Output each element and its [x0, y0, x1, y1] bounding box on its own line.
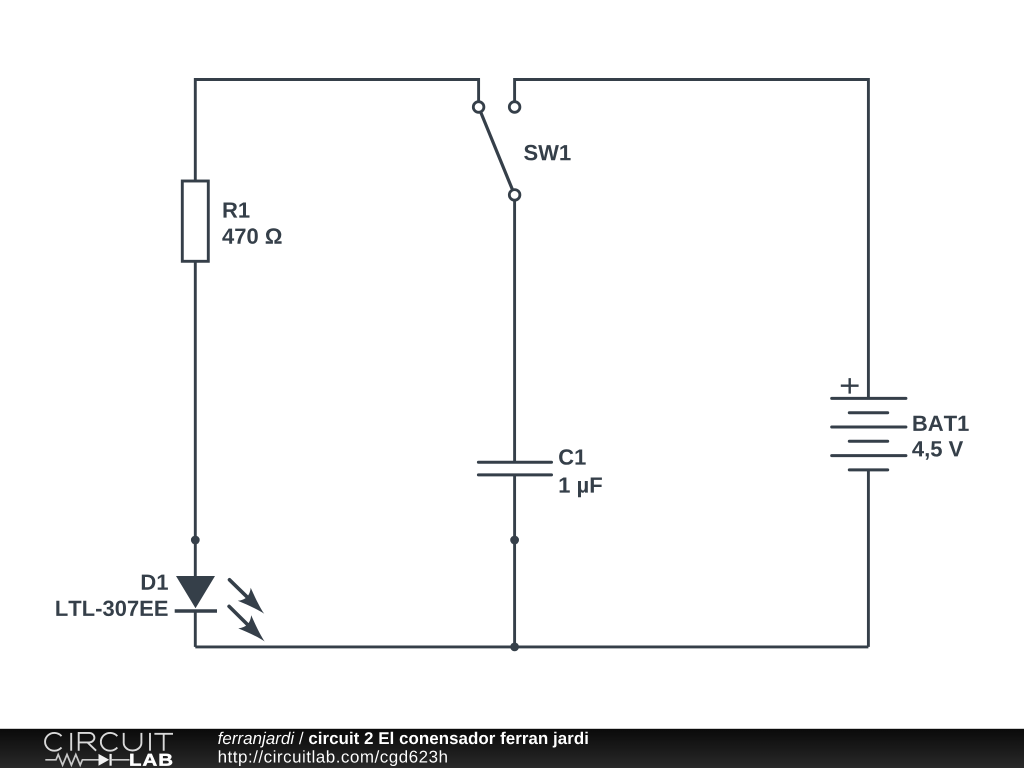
capacitor C1 value label: [560, 478, 602, 498]
wire: left branch top (resistor top to top-left corner to switch left terminal): [195, 80, 478, 182]
wire: capacitor bottom plate down to bottom rail: [513, 475, 516, 647]
wire: switch bottom terminal down to capacitor top plate: [513, 195, 516, 462]
CircuitLab logo LAB text: [130, 754, 172, 766]
node: junction dot on LED branch: [191, 536, 200, 545]
battery BAT1 plate 6 short (negative): [849, 468, 887, 471]
wire: bottom rail: [195, 645, 868, 648]
battery BAT1 value label: [912, 441, 963, 460]
LED D1 label: [142, 575, 168, 590]
LED D1 light arrow 1 head: [238, 588, 264, 614]
wire: LED cathode down to bottom rail: [194, 611, 197, 647]
battery BAT1 plate 4 short: [849, 440, 887, 443]
capacitor C1 label: [559, 449, 586, 465]
CircuitLab logo diode bar: [109, 754, 111, 766]
switch SW1 left terminal circle: [473, 102, 484, 113]
CircuitLab logo letter R: [79, 733, 96, 751]
wire: switch right terminal up and top-right corner down to battery top: [515, 80, 869, 399]
CircuitLab logo letter C: [45, 733, 61, 751]
node: junction dot on capacitor branch: [510, 536, 519, 545]
resistor R1 label: [224, 203, 250, 218]
LED D1 triangle (anode): [176, 576, 215, 608]
battery BAT1 plus sign: [841, 378, 859, 394]
switch SW1 label: [524, 145, 571, 161]
CircuitLab logo diode triangle: [99, 754, 110, 766]
capacitor C1 top plate: [478, 461, 551, 464]
CircuitLab logo resistor zigzag wire: [45, 755, 98, 766]
battery BAT1 label: [913, 416, 968, 431]
LED D1 light arrow 2 shaft: [229, 606, 250, 627]
CircuitLab logo letter I: [70, 733, 72, 751]
battery BAT1 plate 2 short: [849, 411, 887, 414]
switch SW1 lever: [479, 107, 515, 195]
LED D1 light arrow 2 head: [238, 615, 264, 641]
battery BAT1 plate 5 long: [832, 454, 906, 457]
LED D1 part number label: [56, 601, 167, 617]
footer black bar: [0, 729, 1024, 768]
battery BAT1 plate 1 long (positive): [832, 397, 906, 400]
switch SW1 pole terminal circle: [509, 190, 520, 201]
wire: battery bottom terminal down to bottom rail: [867, 470, 870, 647]
CircuitLab logo letter U: [124, 733, 142, 751]
resistor R1 value label: [222, 228, 281, 244]
battery BAT1 plate 3 long: [832, 426, 906, 429]
LED D1 light arrow 1 shaft: [230, 580, 251, 600]
CircuitLab logo letter I 2: [149, 733, 151, 751]
footer url text: [219, 750, 447, 766]
wire: resistor bottom down to LED anode: [194, 261, 197, 577]
CircuitLab logo letter T: [154, 734, 173, 751]
capacitor C1 bottom plate: [478, 473, 551, 476]
CircuitLab logo wire to LAB: [111, 759, 130, 761]
footer title text: [218, 732, 588, 748]
node: junction dot at bottom rail / capacitor branch: [510, 643, 519, 652]
CircuitLab logo letter C 2: [101, 733, 117, 751]
LED D1 cathode bar: [175, 609, 217, 612]
switch SW1 right terminal circle: [509, 102, 520, 113]
resistor R1: [182, 181, 208, 261]
